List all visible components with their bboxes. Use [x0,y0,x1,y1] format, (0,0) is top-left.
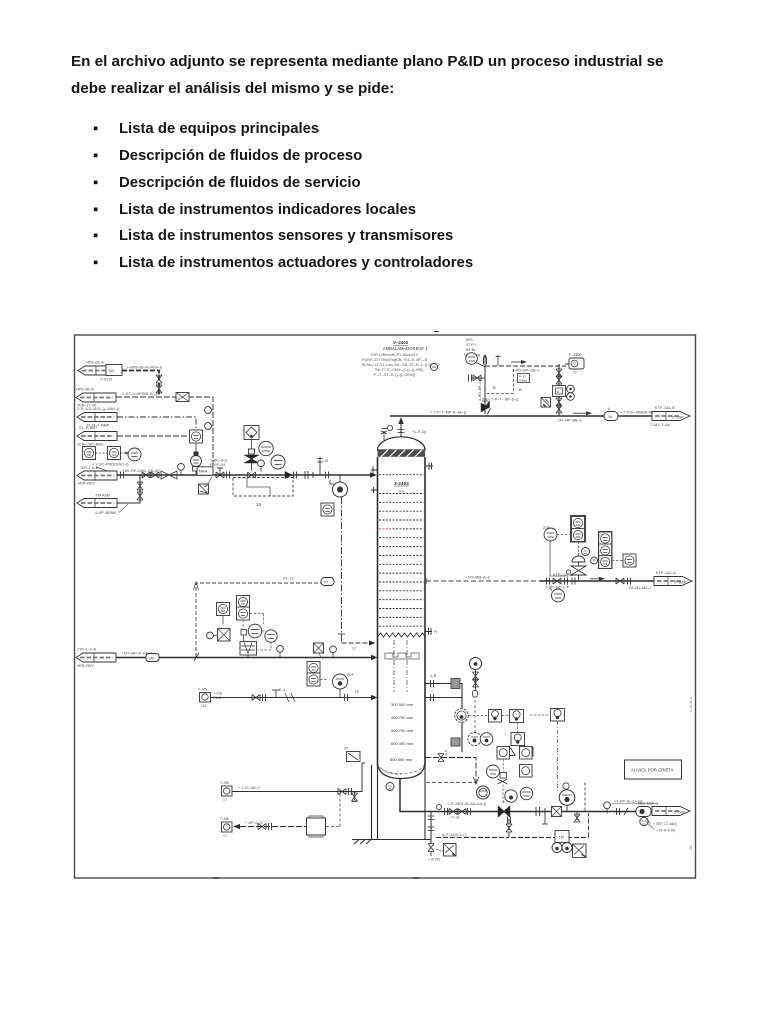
heading paragraph [71,48,711,103]
hand valve with actuator [216,468,230,479]
svg-text:2TP–1–2–B: 2TP–1–2–B [77,648,97,652]
gauge dashed drop [473,690,478,732]
PT capsule [321,578,334,586]
svg-text:P–IT–ST–R–()–()–GEM(): P–IT–ST–R–()–()–GEM() [374,373,415,377]
svg-text:PDF: PDF [347,673,354,677]
condensate squares [497,747,532,778]
svg-text:+ І2–ІІ–ІІ ІІІ): + І2–ІІ–ІІ ІІІ) [656,829,675,833]
column trays [379,475,424,627]
svg-text:2’–50F: 2’–50F [674,811,686,815]
overhead vapour line [390,416,652,437]
steam trap box [344,747,360,762]
teardrop mid-left [277,645,284,657]
ticks and spec break [617,808,629,815]
reboiler bottom dashed [426,782,476,784]
column T-2402 shell [378,437,426,779]
svg-text:3-2402: 3-2402 [394,481,409,487]
spec text above control valve [210,459,227,468]
PSV bypass dashed loop [486,369,514,394]
diag tick on F6 line [194,653,199,661]
svg-text:BP1: BP1 [466,338,473,342]
cooling water drop [558,364,560,416]
dark gate valve on bottoms [498,806,510,817]
drain drop left [428,812,435,857]
F box left [198,688,223,709]
svg-text:PІ: PІ [434,630,437,634]
svg-text:L8: L8 [355,690,359,694]
inline strainer on F2 pipe [176,393,189,402]
B marks [493,385,522,392]
svg-text:V–2402: V–2402 [393,340,409,345]
svg-text:VER–CAP–RMe: VER–CAP–RMe [77,443,103,447]
square X bottom right [573,844,587,858]
drop to flag F5b [117,475,143,503]
reflux line down [341,497,343,643]
vent riser with ticks [317,457,329,479]
feed line fittings [121,463,185,479]
svg-text:BCMo–12 G3–Lan–M1–GB–ST–R–1–: BCMo–12 G3–Lan–M1–GB–ST–R–1–()–B—12 [362,363,439,367]
svg-text:A: A [608,407,611,411]
pump aux instrument [321,503,334,516]
PSV tag text [464,338,480,357]
svg-text:1–RO–BP–GB–1: 1–RO–BP–GB–1 [512,369,539,373]
column skirt [352,765,431,844]
svg-text:OV–MP–BB–S: OV–MP–BB–S [558,419,582,423]
teardrop on stripping line [330,646,337,658]
liquid distributor [385,653,419,659]
svg-text:121: 121 [201,704,207,708]
svg-text:B: B [493,385,496,390]
level gauge circle [470,658,482,691]
svg-text:300 500 mm: 300 500 mm [391,702,414,707]
PSV circle under bottoms [640,817,648,825]
svg-text:TML P–IT–GEM–()–()–()–EB(): TML P–IT–GEM–()–()–()–EB() [374,368,423,372]
svg-text:ALIVIOL POR GRIETA: ALIVIOL POR GRIETA [631,768,674,773]
product line labels [545,573,651,590]
svg-text:HPS–06–A: HPS–06–A [86,361,104,365]
ALIVIO note box [625,760,682,779]
flow instrument circle F [191,456,202,475]
relief valve on riser [481,399,491,415]
svg-text:2TB: 2TB [543,526,550,530]
check valve dark [285,472,297,479]
svg-text:1FR–1.5–B: 1FR–1.5–B [80,466,99,470]
column nozzle vapor side [425,628,437,635]
svg-text:18: 18 [324,459,328,463]
small converter box [241,630,247,642]
svg-text:400 700 mm: 400 700 mm [391,715,414,720]
inlet flag F3 [77,407,119,428]
svg-text:P1–B: P1–B [213,696,222,700]
svg-text:1–HPS–06–A–0474–(): 1–HPS–06–A–0474–() [126,366,162,370]
positioner square with diamond [244,426,259,440]
control valve on product [571,542,586,582]
control valve mid-left [240,642,257,658]
signal link lines midleft [243,614,271,651]
stripping feed line [116,652,378,661]
reboiler draw nozzles [425,674,462,752]
downcomer dash-dot lines [394,640,407,692]
column hatched band [378,450,426,457]
PI circle top [466,353,485,367]
instrument circles LIC FIC [259,441,285,469]
TI square mid-left [217,603,230,625]
svg-text:ARFA: ARFA [199,470,209,474]
small valve under y791 [352,792,358,802]
svg-text:KTP–1Δ2–B: KTP–1Δ2–B [655,406,675,410]
TV square with X mid-left [207,629,230,642]
svg-text:2’–2AP: 2’–2AP [672,416,684,420]
svg-text:7–OH: 7–OH [213,692,223,696]
utility instrument lower left [220,817,232,838]
svg-text:+ SET 17–ІΔІ(): + SET 17–ІΔІ() [653,822,677,826]
LI square far right [530,709,565,722]
svg-text:KTP–1Δ2–Δ: KTP–1Δ2–Δ [553,573,573,577]
svg-text:12: 12 [573,371,577,375]
svg-text:4–PP–BPBM: 4–PP–BPBM [95,511,116,515]
svg-text:1M: 1M [149,657,154,661]
bullet list [93,116,473,277]
valves on F1 drop [156,375,162,393]
svg-text:+ 1–ІC–ІІІ2–4: + 1–ІC–ІІІ2–4 [238,786,260,790]
inlet flag F5 main feed [77,466,117,486]
dome vent instrument [381,425,426,440]
flag F1 label box [106,365,122,376]
inlet flag F1 [78,361,118,382]
pipe from F2 [116,392,213,473]
svg-text:T60: T60 [108,369,114,373]
LI square row [469,710,524,723]
svg-text:500 500 mm: 500 500 mm [390,757,413,762]
svg-text:12: 12 [223,834,227,838]
title block notes [362,340,439,377]
frame edge small texts [689,697,693,850]
inline pump capsule [636,802,658,817]
outlet flag top [650,406,690,427]
riser note [488,398,518,402]
frame top tick [213,332,439,879]
PSV discharge header [485,360,566,373]
drain teardrop on feed [258,460,265,472]
pipe from F4 [117,435,189,437]
capsule on F6 line [146,654,159,662]
flow arrows on overhead [558,411,592,422]
svg-text:POBF–12T MNoPagΈB–T01–Έ–BF—B: POBF–12T MNoPagΈB–T01–Έ–BF—B [362,358,428,362]
level instrument stack [307,662,328,687]
product draw signal dashed [426,576,540,585]
LAH trapezoid [497,747,533,756]
utility line y826 [233,821,306,830]
overhead line label [620,411,658,415]
pipe from F1 [122,366,162,398]
svg-text:VER–REV: VER–REV [78,482,95,486]
drop valve x577 [574,814,580,822]
svg-text:HPS–06–A: HPS–06–A [76,388,94,392]
LR square lower [511,723,525,746]
svg-text:F–2400: F–2400 [569,353,582,357]
utility line y791 [231,763,365,795]
left instrument squares row [83,447,142,462]
column internal labels [390,481,414,762]
square X on stripping line [314,643,324,658]
outlet flag product [654,571,692,586]
sample circles on riser [205,407,213,430]
TT circle right [543,526,570,576]
filter square on y826 [307,792,341,838]
svg-text:+ 80–RF–2402–GB–4(): + 80–RF–2402–GB–4() [122,469,159,473]
svg-text:AMBALAMADOREUF 1: AMBALAMADOREUF 1 [383,346,428,351]
svg-text:PT: PT [324,581,328,585]
control station FY-2404 [190,430,203,457]
LT circles bottom [468,732,493,745]
inlet flag F4 [77,426,117,447]
svg-text:+ 7–P–T – BP–()–(): + 7–P–T – BP–()–() [488,398,518,402]
square X below feed line [199,477,213,494]
svg-text:B: B [519,387,522,392]
svg-text:P–PF–04: P–PF–04 [210,463,225,467]
svg-text:3–RO–BP–04: 3–RO–BP–04 [478,380,482,401]
svg-text:PT–T1: PT–T1 [283,577,294,581]
F-2400 box [569,353,584,375]
svg-text:L2: L2 [352,647,356,651]
svg-text:+7–ΔІ: +7–ΔІ [450,816,460,820]
junction stub up [483,354,501,366]
frame border [75,335,696,878]
main feed pipe [117,469,377,478]
inlet flag F6 [76,648,116,669]
control valve FV on feed [244,440,259,479]
bottoms pump P-2402 [559,783,575,812]
svg-text:+ ІІІ ІІІ2: + ІІІ ІІІ2 [428,858,440,862]
svg-text:VER–REV: VER–REV [77,664,94,668]
reboiler top line [425,750,479,784]
flange cluster mid bottoms [536,807,545,816]
bypass spec box [518,374,530,383]
FIC circle pair [248,624,277,642]
aux drop right [436,783,589,838]
level circle at column base [386,783,394,791]
svg-text:2–R–4.5–0101–()–2404–(): 2–R–4.5–0101–()–2404–() [77,407,119,411]
svg-text:ІІІ2: ІІІ2 [689,845,693,850]
svg-text:KTP–1Δ2–Δ: KTP–1Δ2–Δ [656,571,676,575]
signal line mid left [194,577,335,657]
interlock dashed box [233,478,293,508]
sample circle below product [549,588,565,603]
note reference circle [430,363,437,370]
alarm circles bottom [552,843,572,853]
signal drop to pump [557,721,559,792]
bottoms outlet pipe [400,779,652,815]
TW box [555,831,569,843]
svg-text:T–0170: T–0170 [100,378,112,382]
diamond interlock box [541,398,551,408]
svg-text:TM–M1–M5–1: TM–M1–M5–1 [628,586,651,590]
svg-text:E–4: E–4 [279,688,285,692]
LIC circle [333,673,354,698]
TIC square stack right [571,516,586,543]
svg-text:2’–ΔAP: 2’–ΔAP [674,581,687,585]
svg-text:16: 16 [608,415,612,419]
svg-text:1X: 1X [256,502,261,507]
svg-text:500 700 mm: 500 700 mm [391,728,414,733]
svg-text:1–P–2402–M–ΔΔ–ΔΔ–(): 1–P–2402–M–ΔΔ–ΔΔ–() [447,802,486,806]
svg-text:BT BL: BT BL [466,348,476,352]
control valve with positioner on drop [553,385,575,400]
reflux pump P-2402 [330,475,348,497]
svg-text:4–B: 4–B [430,674,437,678]
product line right [540,570,654,585]
svg-text:T–M6: T–M6 [220,817,229,821]
small circle under stack [582,548,590,556]
svg-text:ST–P–BM7: ST–P–BM7 [79,426,97,430]
inline analyser box ARFA [197,467,213,475]
svg-text:1–ST–0–HPS06–A–(): 1–ST–0–HPS06–A–() [122,392,157,396]
svg-text:T54 ASM: T54 ASM [95,494,110,498]
utility instrument top left [220,781,232,802]
svg-text:1–ІІІ–ІІІ–ІІ: 1–ІІІ–ІІІ–ІІ [689,697,693,712]
svg-text:4–P–2402–І–(): 4–P–2402–І–() [442,833,466,837]
svg-text:MΔ2–MΔP–1: MΔ2–MΔP–1 [638,802,658,806]
leader text 4-SC-PROCESO [92,463,128,475]
PSV riser [484,366,486,414]
3-stack squares right [599,532,613,569]
svg-text:0.5Mx: 0.5Mx [519,379,528,383]
inline silencer capsule [604,407,618,421]
packing support zigzag [378,633,426,637]
svg-text:+1–P–3(): +1–P–3() [412,430,426,434]
svg-text:T–M1–T–Δe: T–M1–T–Δe [650,423,670,427]
svg-text:+ PO–MM–A–(): + PO–MM–A–() [465,576,490,580]
flanged riser ticks [305,471,313,479]
condensate pump cluster [477,765,533,802]
column left nozzle stubs [371,467,378,494]
svg-text:+ 7–P–T–MP–A–Ae–(): + 7–P–T–MP–A–Ae–() [430,411,466,415]
small box and cross valve [498,759,508,803]
column nozzle reflux [425,463,433,470]
TI pair square right [612,554,636,567]
riser rotated label [478,380,482,401]
bottoms label dashed [612,800,658,804]
flare KO line to F-box [565,363,569,365]
motor circle on drop [455,709,469,723]
svg-text:+ 2ІP–ІІ–2І: + 2ІP–ІІ–2І [245,821,262,825]
leader texts bottoms outlet [646,819,677,833]
outlet flag bottoms [652,807,690,816]
svg-text:600 300 mm: 600 300 mm [391,741,414,746]
FR square stack [237,596,250,621]
svg-text:(m): (m) [399,490,404,494]
svg-text:F–M5: F–M5 [198,688,207,692]
svg-text:12: 12 [223,798,227,802]
line label over overhead [430,411,466,415]
svg-text:TN: TN [559,836,564,840]
svg-text:1T P L: 1T P L [466,343,477,347]
left branch valve [469,375,486,382]
valves on drop [556,369,562,413]
reflux return entry [338,634,376,651]
svg-text:T–M5: T–M5 [220,781,229,785]
teardrop on bottoms [604,802,611,814]
small circle left of 3stack [591,557,598,564]
pipe from F3 [117,417,196,429]
reboiler return line [210,688,378,702]
drain sample box [428,844,456,862]
svg-text:4ІІ: 4ІІ [344,747,348,751]
bottoms line label [447,802,486,820]
svg-text:TGR 12Bmod6–P1–Bcom/12: TGR 12Bmod6–P1–Bcom/12 [370,353,418,357]
pump suction box [552,807,562,817]
inlet flag F2 [76,388,116,408]
svg-text:1–BC–4–(): 1–BC–4–() [210,459,227,463]
inlet flag F5b [77,494,128,516]
